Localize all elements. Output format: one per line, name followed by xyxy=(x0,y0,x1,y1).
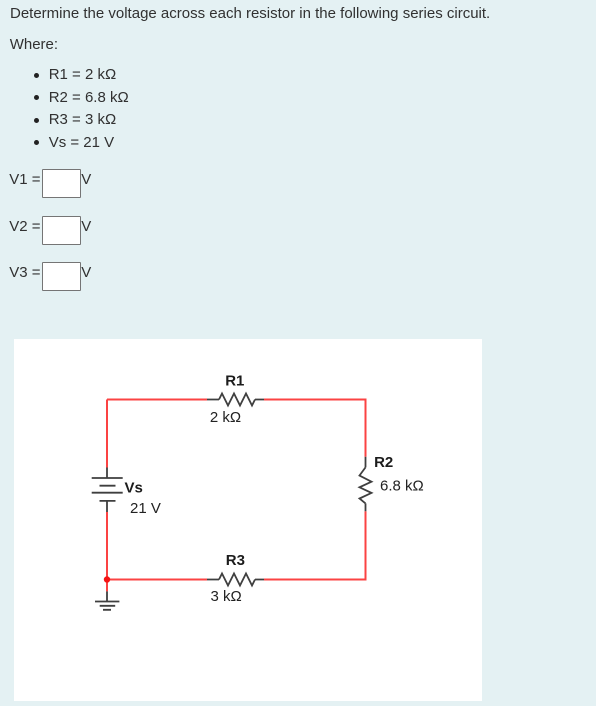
svg-text:R2: R2 xyxy=(374,454,393,471)
svg-text:6.8 kΩ: 6.8 kΩ xyxy=(380,478,424,495)
svg-text:Vs: Vs xyxy=(125,479,143,496)
svg-text:2 kΩ: 2 kΩ xyxy=(210,409,241,426)
svg-text:R3: R3 xyxy=(226,552,245,569)
svg-text:R1: R1 xyxy=(225,373,244,390)
svg-text:21 V: 21 V xyxy=(130,500,161,517)
svg-text:3 kΩ: 3 kΩ xyxy=(211,588,242,605)
